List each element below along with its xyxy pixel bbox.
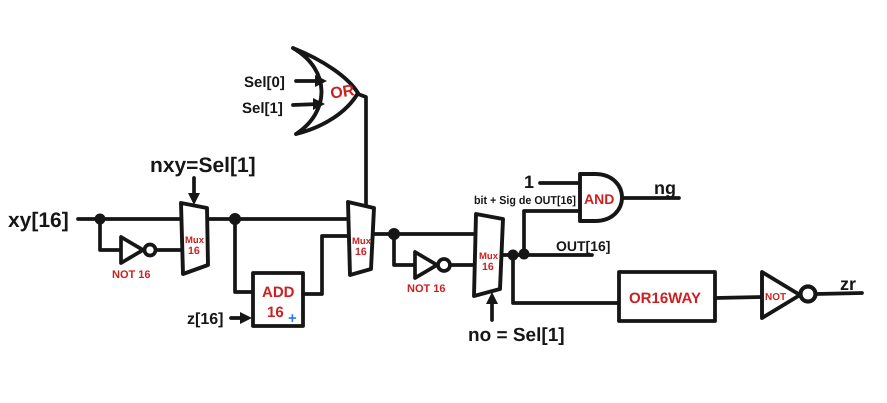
wire down to OR16WAY <box>513 255 619 303</box>
wire nxy arrow into mux1 <box>192 178 196 198</box>
not-gate NOT16 (middle) <box>415 252 437 278</box>
svg-text:Sel[0]: Sel[0] <box>244 74 285 91</box>
svg-text:OUT[16]: OUT[16] <box>556 238 610 254</box>
node junction D <box>508 250 519 261</box>
wire down to NOT1 <box>100 219 121 250</box>
wire mux1 out to mux2 <box>208 217 348 221</box>
wire OR16WAY out to NOT3 <box>715 297 762 298</box>
svg-text:ADD: ADD <box>262 284 295 301</box>
wire NOT1 out to mux1 <box>156 248 182 252</box>
wire 1 into AND <box>540 181 580 185</box>
wire mux3 out <box>502 253 592 257</box>
wire NOT3 out <box>816 293 862 294</box>
and-gate U2 <box>580 174 622 221</box>
svg-text:AND: AND <box>584 191 614 207</box>
wire NOT2 out to mux3 <box>450 263 474 267</box>
not-gate NOT (right) <box>762 272 800 318</box>
svg-text:ng: ng <box>654 178 676 198</box>
wire up to AND <box>524 211 580 254</box>
wire down to ADD <box>235 219 252 292</box>
svg-text:OR16WAY: OR16WAY <box>629 290 701 307</box>
svg-text:NOT 16: NOT 16 <box>112 269 151 281</box>
mux M1 <box>181 203 208 274</box>
node junction B <box>229 213 241 225</box>
node junction A <box>95 214 106 225</box>
svg-text:1: 1 <box>524 172 534 192</box>
wire Sel[1] arrow <box>293 104 319 105</box>
svg-text:+: + <box>288 310 297 327</box>
wire mux2 out to mux3 <box>373 232 475 236</box>
wire ADD out up to mux2 <box>303 236 349 294</box>
svg-text:NOT: NOT <box>765 292 786 303</box>
svg-text:xy[16]: xy[16] <box>8 209 69 232</box>
wire down to NOT2 <box>394 234 415 265</box>
box OR16WAY <box>619 272 715 321</box>
svg-text:bit + Sig de OUT[16]: bit + Sig de OUT[16] <box>474 195 576 207</box>
svg-text:zr: zr <box>840 274 856 294</box>
wire AND out <box>622 196 679 200</box>
svg-text:16: 16 <box>267 304 284 321</box>
node junction E <box>519 249 530 260</box>
wire xy[16] to mux1 <box>78 217 182 221</box>
mux M2 <box>348 202 374 275</box>
svg-text:z[16]: z[16] <box>187 311 223 328</box>
svg-text:16: 16 <box>188 245 200 257</box>
box ADD16 <box>253 273 303 326</box>
not-gate NOT16 (left) <box>121 237 143 263</box>
svg-text:NOT 16: NOT 16 <box>407 283 446 295</box>
node junction C <box>388 228 400 240</box>
mux M3 <box>474 214 503 296</box>
wire z[16] arrow to ADD <box>231 316 245 320</box>
wire Sel[0] arrow <box>296 79 321 83</box>
svg-text:16: 16 <box>482 261 494 273</box>
svg-text:nxy=Sel[1]: nxy=Sel[1] <box>150 154 256 177</box>
wire OR output down to mux2 top <box>358 94 366 205</box>
svg-text:no = Sel[1]: no = Sel[1] <box>468 325 565 346</box>
or-gate U1 (top OR) <box>293 48 358 134</box>
wire no arrow into mux3 bottom <box>490 299 494 320</box>
svg-text:Sel[1]: Sel[1] <box>242 100 283 117</box>
svg-text:16: 16 <box>355 246 367 258</box>
